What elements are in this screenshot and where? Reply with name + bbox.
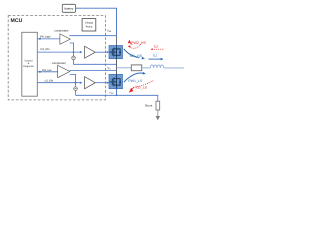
wire resistor to inductor: [142, 67, 151, 69]
svg-text:LS_ON: LS_ON: [45, 80, 54, 83]
MCU dashed box: [8, 16, 105, 100]
red dashed arrow IL2: [152, 48, 164, 50]
ground rail wire: [76, 95, 158, 101]
wire gate 2: [95, 82, 108, 84]
driver amp 1: [85, 46, 96, 58]
svg-text:VBB: VBB: [107, 30, 112, 33]
wire switch node to resistor: [117, 67, 132, 69]
svg-text:Diagnosis: Diagnosis: [23, 65, 34, 68]
wire comparator1 top sense to VBB: [69, 35, 116, 37]
red arrow at Q1 drain: [128, 40, 131, 44]
comparator U1: [60, 34, 70, 44]
node dot IPK: [39, 38, 41, 40]
junction dot HS: [73, 51, 75, 53]
FET highlight box Q1: [109, 46, 123, 59]
svg-text:PW2_HS: PW2_HS: [131, 41, 146, 45]
arrowhead LS_ON: [80, 82, 83, 84]
svg-text:DN_low: DN_low: [42, 69, 51, 72]
battery box: [62, 4, 75, 12]
svg-text:PW1_LS: PW1_LS: [128, 79, 142, 83]
FET highlight box Q2: [109, 74, 123, 88]
arrowhead gate 2: [107, 82, 109, 84]
charge pump box: [82, 19, 96, 31]
svg-text:HS_ON: HS_ON: [40, 48, 49, 51]
junction dot rail: [116, 94, 118, 96]
wire DN_low: [37, 71, 57, 73]
svg-text:IL2: IL2: [154, 45, 159, 49]
wire HS_ON: [37, 51, 80, 53]
red dashed arc PW1: [133, 81, 153, 88]
svg-text:MCU: MCU: [11, 18, 23, 24]
wire battery to VBB rail: [76, 8, 117, 36]
svg-text:comparator: comparator: [54, 28, 68, 32]
svg-text:IL1: IL1: [153, 53, 158, 57]
blue arrow IL1: [149, 58, 162, 60]
label VS on switch node: [106, 65, 113, 70]
arrowhead gate 1: [107, 51, 109, 53]
summing circle 1: [72, 56, 76, 60]
power line through FETs: [116, 46, 118, 59]
svg-text:VSO: VSO: [109, 92, 114, 95]
blue current arc LS: [124, 73, 143, 82]
red dashed arc PW2: [129, 44, 141, 48]
ground: [157, 110, 159, 116]
svg-text:IO1_HS: IO1_HS: [130, 54, 143, 58]
svg-text:IO2_LS: IO2_LS: [136, 86, 148, 90]
svg-text:Shunt: Shunt: [145, 103, 153, 107]
wire comparator2 top sense to node: [70, 69, 117, 71]
svg-text:Charge: Charge: [85, 22, 94, 25]
node dot DN: [39, 71, 41, 73]
wire LS_ON: [37, 82, 80, 84]
svg-text:Battery: Battery: [64, 7, 73, 11]
arrowhead HS_ON: [80, 51, 83, 53]
control and diagnosis box: [22, 32, 38, 96]
junction dot LS: [75, 82, 77, 84]
svg-text:comparator: comparator: [52, 61, 66, 65]
wire gate 1: [95, 51, 108, 53]
transistor Q2 symbol: [110, 78, 121, 87]
driver amp 2: [85, 77, 96, 89]
wire comparator2 lower stub down to ground rail: [70, 74, 76, 95]
svg-text:Pump: Pump: [86, 25, 93, 28]
inductor L1: [150, 65, 163, 68]
shunt resistor: [156, 101, 160, 110]
summing circle 2: [74, 87, 78, 91]
wire FET2 source to rail: [116, 89, 118, 96]
red arrowhead IO2: [129, 88, 134, 93]
blue current arc HS: [124, 49, 140, 58]
transistor Q1 symbol: [110, 48, 121, 57]
wire IPK_high: [37, 38, 60, 40]
wire output: [164, 67, 184, 69]
wire comparator1 lower stub down to node: [70, 43, 116, 64]
resistor R1: [131, 65, 141, 71]
svg-text:IPK_high: IPK_high: [40, 36, 51, 39]
comparator U2: [58, 65, 70, 77]
